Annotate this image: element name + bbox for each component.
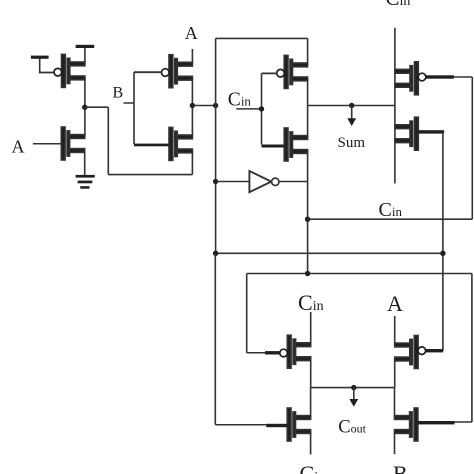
wire A input to N1 gate: [33, 143, 61, 145]
wire N6 gate thin extension: [454, 421, 472, 423]
node XOR output: [190, 103, 195, 108]
wire Cout rail: [311, 387, 395, 389]
wire node N1 to right: [85, 106, 109, 108]
transistor P3 (pMOS pass, gate Cin): [277, 55, 308, 88]
wire inverter input: [216, 181, 250, 183]
wire B input stub: [124, 102, 135, 104]
node inverter output on bus: [305, 217, 310, 222]
wire bypass up to N2 source: [191, 151, 193, 175]
wire P3 gate bubble to Cin line: [262, 72, 278, 74]
wire bus down to inverter input: [215, 106, 217, 254]
transistor N2 (nMOS pass, gate B): [169, 127, 192, 160]
wire Cout wire down to N5 drain: [310, 388, 312, 418]
wire P2 gate bubble to B line: [134, 71, 162, 73]
wire Cin input stub: [236, 108, 261, 110]
Sum arrowhead: [347, 118, 356, 126]
transistor N3 (nMOS pass, gate Cin): [284, 128, 307, 161]
transistor P6 (pMOS pass, carry stage right): [395, 336, 426, 369]
wire Cin gate line vertical: [261, 73, 263, 144]
wire Cin top vertical: [394, 28, 396, 184]
wire Cout wire down to N6 drain: [394, 388, 396, 418]
wire down left bypass: [107, 107, 109, 174]
wire node to vertical bus: [192, 105, 215, 107]
node Cin tap: [259, 106, 264, 111]
svg-text:A: A: [185, 23, 198, 43]
power bar VDD (top of inverter stage 1): [76, 45, 95, 48]
svg-text:Sum: Sum: [338, 135, 366, 151]
svg-text:Cin: Cin: [298, 290, 324, 315]
wire N5 gate thick lead: [266, 424, 288, 427]
wire N3 gate lead: [262, 145, 285, 148]
wire N1 source to ground: [84, 150, 86, 175]
svg-text:B: B: [113, 85, 124, 102]
wire Cbar lower cross wire: [247, 273, 472, 275]
transistor N1 (nMOS, inverter stage 1): [61, 127, 84, 160]
node inverter input tap: [213, 179, 218, 184]
ground: [76, 175, 95, 189]
power bar (gate tie of P1): [31, 56, 49, 59]
node on bus: [213, 103, 218, 108]
wire P4 gate thin extension: [454, 76, 472, 78]
svg-text:B: B: [393, 461, 408, 474]
node Sum: [349, 103, 354, 108]
wire P2 drain to node N2out: [191, 78, 193, 137]
wire stage3 output to Sum line: [308, 105, 395, 107]
wire N3 source down to inverter bus: [307, 151, 309, 273]
wire bus top rectangle right down to P3: [307, 38, 309, 65]
transistor P1 (pMOS, inverter stage 1): [54, 54, 85, 87]
node N1 (Abar): [82, 105, 87, 110]
wire N4 gate lead: [418, 130, 444, 133]
wire A down to P2 source: [191, 49, 193, 65]
wire Cout arrow stem: [353, 388, 355, 401]
wire Cbar to right edge: [308, 218, 473, 220]
wire N5 source stub: [310, 431, 312, 454]
wire N6 source stub: [394, 431, 396, 454]
wire right edge up to P4 gate: [471, 77, 473, 219]
wire N2 gate lead: [134, 144, 169, 147]
wire P1 drain to node N1: [84, 78, 86, 137]
wire N4 gate down right bus: [442, 132, 444, 351]
wire bus top rectangle horizontal: [216, 37, 308, 39]
wire Sum arrow stem: [351, 106, 353, 120]
inverter U1 bubble: [272, 178, 279, 185]
transistor N5 (nMOS pass, carry stage left): [287, 408, 310, 441]
wire A label to P6 source: [394, 316, 396, 345]
wire Cin label to P5 source: [310, 312, 312, 345]
wire bypass bottom run: [108, 174, 192, 176]
wire VDD bar to P1 source: [84, 48, 86, 65]
wire left bus down to N5 gate: [214, 253, 216, 424]
svg-text:Cin: Cin: [228, 90, 252, 111]
wire P3 drain to N3 drain (stage3 output): [307, 79, 309, 138]
node Cout: [351, 385, 356, 390]
wire P6 gate thick lead: [425, 349, 443, 352]
transistor N4 (nMOS pass, Sum stage): [395, 117, 418, 150]
node right end cross wire: [440, 251, 445, 256]
wire lower cross wire left down to P5 gate: [246, 274, 248, 353]
wire P6 drain to Cout wire: [394, 359, 396, 388]
svg-text:Cin: Cin: [386, 0, 411, 10]
inverter U1: [249, 171, 271, 192]
transistor P2 (pMOS pass, gate B): [162, 55, 193, 88]
wire gate-tie bar down: [39, 58, 41, 72]
svg-text:A: A: [387, 291, 403, 316]
wire lower cross wire right edge down: [471, 274, 473, 423]
wire P5 gate wire: [247, 352, 266, 354]
svg-text:Cout: Cout: [338, 418, 366, 438]
node Cbar on lower cross wire: [305, 271, 310, 276]
svg-text:Cin: Cin: [379, 199, 403, 221]
svg-text:Cin: Cin: [300, 461, 326, 474]
transistor P5 (pMOS pass, carry stage left): [280, 335, 311, 368]
node left end cross wire: [213, 251, 218, 256]
wire B gate line vertical: [133, 72, 135, 144]
wire P5 gate thick lead: [265, 351, 280, 354]
svg-text:A: A: [12, 137, 25, 157]
wire bus top rectangle left: [215, 38, 217, 105]
transistor N6 (nMOS pass, carry stage right): [395, 408, 418, 441]
transistor P4 (pMOS pass, Sum stage): [395, 62, 426, 95]
wire P4 gate lead: [426, 75, 454, 78]
wire N6 gate thick lead: [418, 421, 455, 424]
wire inverter output: [279, 181, 308, 183]
wire N5 gate thin wire: [215, 424, 266, 426]
wire P5 drain to Cout wire: [310, 359, 312, 388]
Cout arrowhead: [349, 399, 358, 407]
wire gate-tie to P1 bubble: [39, 72, 55, 74]
wire A-xor-B cross wire: [216, 252, 443, 254]
